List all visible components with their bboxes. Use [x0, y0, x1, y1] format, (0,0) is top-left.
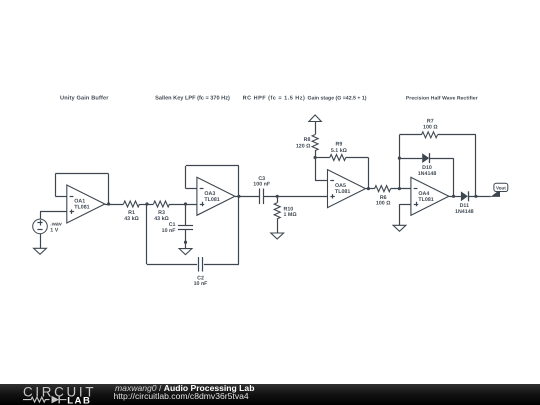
capacitor C1 10 nF — [162, 204, 193, 249]
svg-text:1N4148: 1N4148 — [455, 208, 474, 214]
svg-text:R1: R1 — [128, 210, 135, 216]
diode D10 1N4148 — [399, 153, 453, 196]
ground below C1 — [179, 249, 192, 255]
node OA3 output — [237, 195, 240, 198]
svg-text:R7: R7 — [427, 118, 434, 124]
wire OA4 output — [449, 196, 461, 198]
voltage source V1 .wav 1 V — [33, 219, 62, 234]
resistor R1 43 k — [124, 201, 140, 222]
section label: RC HPF — [243, 95, 306, 101]
svg-text:1N4148: 1N4148 — [418, 170, 437, 176]
wire C2 loop left/bottom/right — [147, 196, 239, 264]
node D10 anode junction — [398, 157, 401, 160]
svg-text:Unity Gain Buffer: Unity Gain Buffer — [60, 95, 109, 101]
svg-text:120 Ω: 120 Ω — [296, 143, 311, 149]
node OA4 output / D10 junction — [452, 195, 455, 198]
footer bar — [0, 384, 540, 405]
node OA1 output — [107, 202, 110, 205]
ground below OA4 — [393, 225, 406, 231]
flag Vout — [491, 183, 508, 197]
svg-text:C1: C1 — [169, 221, 176, 227]
capacitor C2 10 nF — [194, 257, 208, 287]
wire V1 to OA1 + input — [40, 212, 67, 220]
svg-text:C2: C2 — [197, 275, 204, 281]
svg-text:C3: C3 — [258, 175, 265, 181]
svg-text:Sallen Key LPF (fc = 370 Hz): Sallen Key LPF (fc = 370 Hz) — [155, 95, 230, 101]
wire OA4 feedback vertical — [399, 135, 401, 189]
node C1 ground junction — [184, 241, 187, 244]
svg-text:D10: D10 — [422, 164, 432, 170]
svg-text:.wav: .wav — [50, 221, 62, 227]
resistor R3 43 k — [154, 201, 170, 222]
wire OA4 + input to ground — [400, 204, 411, 225]
svg-text:OA4: OA4 — [418, 190, 429, 196]
op-amp OA4 TL081 (minus on top) — [411, 177, 449, 215]
svg-text:43 kΩ: 43 kΩ — [124, 216, 139, 222]
svg-text:100 nF: 100 nF — [253, 181, 270, 187]
resistor R7 100 — [399, 118, 476, 196]
footer title — [115, 383, 254, 393]
svg-text:100 Ω: 100 Ω — [423, 124, 438, 130]
footer url — [114, 391, 249, 401]
ground below R10 — [271, 233, 284, 239]
resistor R6 100 — [375, 186, 391, 207]
section label: Gain stage — [308, 96, 367, 102]
resistor R9 5.1 k — [315, 141, 368, 160]
svg-text:R3: R3 — [158, 210, 165, 216]
section label: Sallen Key LPF — [155, 95, 230, 101]
wire R1 to R3 — [140, 204, 154, 206]
resistor R10 1 M — [274, 196, 297, 233]
svg-text:TL081: TL081 — [74, 204, 89, 210]
wire C3 to OA5 + input — [263, 196, 327, 198]
wire R3 to OA3 + input — [170, 204, 197, 206]
capacitor C3 100 nF — [253, 175, 270, 204]
svg-text:1 V: 1 V — [50, 227, 58, 233]
svg-text:R6: R6 — [380, 194, 387, 200]
wire OA1 feedback loop — [55, 174, 108, 205]
svg-text:TL081: TL081 — [335, 189, 350, 195]
svg-text:Vout: Vout — [496, 186, 506, 191]
wire R6 to OA4 - input — [391, 188, 411, 190]
svg-text:100 Ω: 100 Ω — [376, 200, 391, 206]
svg-text:LAB: LAB — [67, 395, 91, 405]
wire V1 to ground — [40, 234, 42, 249]
node R8/R9 junction — [314, 156, 317, 159]
wire OA5 output to R6 — [366, 188, 375, 190]
section label: Precision Half Wave Rectifier — [406, 96, 478, 102]
wire OA3 output — [235, 196, 260, 198]
diode D11 1N4148 — [455, 191, 474, 214]
svg-text:R8: R8 — [304, 137, 311, 143]
op-amp OA3 TL081 — [197, 177, 235, 215]
svg-text:10 nF: 10 nF — [194, 281, 208, 287]
wire VCC to R8 — [315, 122, 317, 135]
section label: Unity Gain Buffer — [60, 95, 109, 101]
svg-text:R9: R9 — [336, 141, 343, 147]
svg-text:1 MΩ: 1 MΩ — [284, 212, 297, 218]
ground below V1 — [34, 248, 47, 254]
op-amp OA5 TL081 — [328, 170, 366, 208]
svg-text:Gain stage (G =42.5 + 1): Gain stage (G =42.5 + 1) — [308, 96, 367, 102]
wire R8 to junction — [315, 151, 317, 158]
wire R9 to OA5 output — [368, 158, 370, 189]
svg-text:OA3: OA3 — [204, 190, 215, 196]
svg-text:RC HPF (fc = 1.5 Hz): RC HPF (fc = 1.5 Hz) — [243, 95, 306, 101]
svg-text:R10: R10 — [284, 206, 294, 212]
node R1/R3/C2 junction — [145, 202, 148, 205]
node C3/R10 junction — [276, 195, 279, 198]
svg-text:TL081: TL081 — [204, 196, 219, 202]
svg-text:OA5: OA5 — [335, 183, 346, 189]
power VCC arrow — [309, 115, 321, 122]
wire D11 to flag — [468, 196, 491, 198]
node R3/C1 junction — [184, 202, 187, 205]
svg-text:10 nF: 10 nF — [162, 227, 176, 233]
svg-text:OA1: OA1 — [74, 198, 85, 204]
svg-text:Precision Half Wave Rectifier: Precision Half Wave Rectifier — [406, 96, 478, 102]
node R6/feedback junction — [398, 187, 401, 190]
svg-text:5.1 kΩ: 5.1 kΩ — [331, 148, 347, 154]
wire OA3 feedback loop — [186, 166, 239, 197]
svg-text:TL081: TL081 — [418, 196, 433, 202]
CircuitLab logo — [18, 384, 114, 405]
node D11/R7 junction — [474, 195, 477, 198]
wire junction to OA5 - input — [315, 158, 327, 182]
svg-text:43 kΩ: 43 kΩ — [154, 216, 169, 222]
node OA5 output — [367, 187, 370, 190]
op-amp OA1 TL081 — [67, 185, 105, 223]
svg-text:D11: D11 — [460, 202, 469, 208]
wire OA1 output — [105, 204, 124, 206]
resistor R8 120 — [296, 135, 318, 151]
